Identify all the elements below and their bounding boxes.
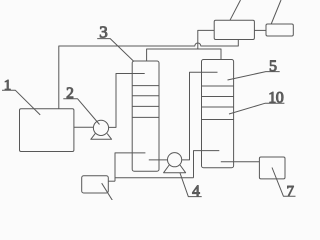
tank T1 (box 1)	[20, 109, 74, 152]
pump P2 circle	[93, 120, 108, 135]
box 6	[82, 176, 109, 193]
svg-text:5: 5	[269, 58, 277, 75]
svg-text:1: 1	[4, 77, 12, 93]
condenser box 8	[214, 20, 254, 39]
wire: box1 to pump2 suction	[74, 126, 94, 128]
pump P4 circle	[168, 153, 182, 167]
svg-text:10: 10	[268, 90, 284, 107]
wire: long bottom line	[115, 177, 194, 179]
box 9	[266, 24, 293, 36]
wire: column5 side outlet to box7	[221, 161, 260, 163]
leader to box 8 (label cut off)	[230, 0, 241, 20]
tray line C5-2	[202, 96, 234, 98]
wire: box1 vent up and across to box 8 with hop	[59, 40, 239, 109]
wire: box8 down to vapor line	[198, 30, 214, 49]
tray line C3-3	[132, 105, 159, 107]
wire: pump4 discharge up into column5 feed	[182, 72, 218, 160]
leader from box 6 (label cut off)	[102, 183, 113, 200]
tray line C3-1	[132, 85, 159, 87]
wire: bottom return line to column5 lower inlet	[194, 151, 220, 178]
wire: column3 overhead vapor to column5 top	[147, 49, 221, 61]
tray line C5-4	[202, 119, 234, 121]
tray line C3-4	[132, 116, 159, 118]
wire: column3 bottoms to pump4	[149, 159, 168, 161]
wire: pump2 discharge up into column 3	[109, 74, 145, 128]
column C3 (box 3)	[132, 61, 159, 171]
wire: vertical riser to column3 lower inlet	[115, 153, 145, 181]
wire: box6 connector	[108, 180, 115, 182]
tray line C5-1	[202, 85, 234, 87]
pump P2 base triangle	[91, 134, 112, 140]
box 7	[259, 157, 285, 179]
svg-text:2: 2	[66, 85, 74, 102]
svg-text:7: 7	[287, 184, 295, 200]
pump P4 base triangle	[164, 165, 186, 173]
wire: box8 to box9	[254, 29, 266, 31]
tray line C5-3	[202, 106, 234, 108]
column C5 (box 5)	[202, 60, 234, 168]
leader to box 9 (label cut off)	[271, 0, 281, 24]
tray line C3-2	[132, 95, 159, 97]
svg-text:4: 4	[192, 183, 200, 200]
